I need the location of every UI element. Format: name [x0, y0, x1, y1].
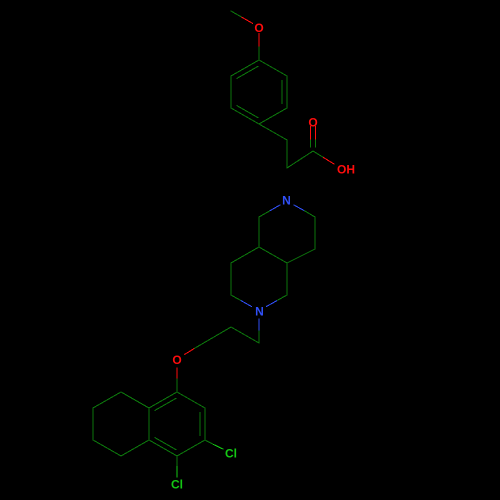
N2 to D1 green half	[258, 331, 260, 343]
benzene ring A	[231, 60, 287, 124]
wire E4 to Cl2 skeleton half	[176, 456, 178, 467]
svg-text:N: N	[255, 304, 264, 318]
wire methyl to O1 red half	[242, 17, 253, 23]
wire ring A to C1	[259, 124, 287, 140]
wire O1 to ring red half	[258, 34, 260, 47]
benzene ring D	[149, 392, 205, 456]
svg-text:Cl: Cl	[171, 478, 183, 492]
ring D inner double bond BL	[155, 438, 176, 450]
ring C C5p to N2 green half	[231, 295, 241, 301]
ring C TL edge B5-C6	[231, 247, 259, 263]
ring B N1 to B2 green half	[305, 211, 316, 217]
wire C3 to OH green half	[313, 151, 324, 158]
ring B BR edge	[287, 249, 315, 263]
ring C right edge B4-C3p	[286, 263, 288, 295]
wire E3 to Cl1 bright half	[214, 445, 224, 450]
ring B right edge	[314, 217, 316, 249]
shared fusion edge B5-B4	[259, 247, 287, 263]
wire C3 to OH red half	[324, 158, 335, 165]
ring D inner double bond right	[199, 413, 201, 436]
ring A inner double bond TL	[237, 66, 258, 78]
wire O4 to E1 red half	[176, 368, 178, 379]
ring A inner double bond right	[281, 81, 283, 104]
wire E4 to Cl2 bright half	[176, 467, 178, 478]
wire C2 to C3 carboxyl	[287, 151, 313, 168]
svg-text:O: O	[172, 353, 181, 367]
ring B left edge	[258, 217, 260, 247]
N2 to D1 blue half	[258, 319, 260, 331]
ring C C3p to N2 blue half	[267, 301, 277, 307]
ring C left edge	[230, 263, 232, 295]
ring A inner double bond BL	[237, 106, 258, 118]
wire D2 through D3 to O4 green part	[194, 327, 231, 349]
wire D3 to O4 red half	[185, 349, 194, 355]
saturated ring E	[93, 392, 149, 456]
wire methyl to O1 green half	[231, 11, 242, 17]
ring C C3p to N2 green half	[277, 295, 287, 301]
wire E3 to Cl1 skeleton half	[205, 440, 214, 445]
ring D inner double bond TL	[155, 398, 176, 410]
ring C C5p to N2 blue half	[241, 301, 251, 307]
ring B N1 to B6 blue half	[270, 205, 281, 211]
ring B N1 to B6 green half	[259, 211, 270, 217]
wire O4 to E1 green half	[176, 379, 178, 392]
svg-text:N: N	[282, 194, 291, 208]
carbonyl C3=O2 double bond green halves	[310, 140, 312, 147]
ring B N1 to B2 blue half	[294, 205, 305, 211]
wire O1 to ring green half	[258, 47, 260, 60]
svg-text:O: O	[308, 115, 317, 129]
carbonyl C3=O2 double bond red halves	[310, 127, 312, 141]
wire D1 to D2	[231, 327, 259, 343]
svg-text:O: O	[254, 21, 263, 35]
wire C1 to C2	[286, 140, 288, 168]
svg-text:OH: OH	[337, 162, 355, 176]
svg-text:Cl: Cl	[225, 446, 237, 460]
